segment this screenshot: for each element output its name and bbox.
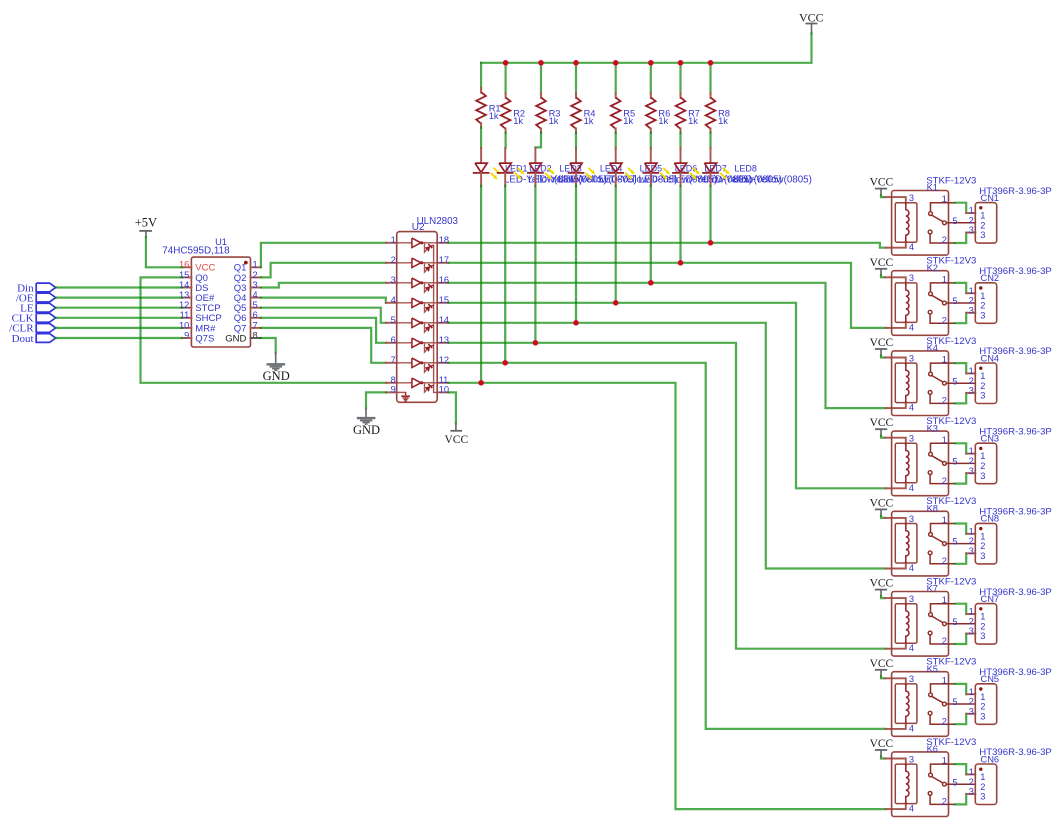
svg-text:2: 2 — [969, 376, 974, 386]
svg-text:7: 7 — [391, 355, 396, 365]
svg-text:LED8: LED8 — [734, 163, 757, 173]
svg-text:4: 4 — [909, 643, 914, 653]
svg-text:VCC: VCC — [870, 337, 894, 349]
svg-text:4: 4 — [909, 242, 914, 252]
svg-text:2: 2 — [969, 456, 974, 466]
svg-text:1: 1 — [942, 756, 947, 766]
svg-text:5: 5 — [952, 617, 957, 627]
svg-text:3: 3 — [909, 674, 914, 684]
svg-text:1: 1 — [969, 446, 974, 456]
svg-text:VCC: VCC — [870, 578, 894, 590]
svg-text:3: 3 — [909, 514, 914, 524]
svg-text:2: 2 — [942, 636, 947, 646]
svg-text:VCC: VCC — [870, 257, 894, 269]
svg-text:CN6: CN6 — [981, 754, 1000, 764]
svg-text:5: 5 — [952, 376, 957, 386]
svg-text:5: 5 — [952, 296, 957, 306]
svg-text:2: 2 — [969, 296, 974, 306]
svg-text:3: 3 — [969, 225, 974, 235]
svg-text:3: 3 — [909, 353, 914, 363]
svg-text:VCC: VCC — [870, 417, 894, 429]
svg-text:K1: K1 — [927, 183, 938, 193]
svg-text:VCC: VCC — [870, 177, 894, 189]
svg-text:3: 3 — [969, 386, 974, 396]
svg-text:9: 9 — [184, 330, 189, 340]
svg-text:K5: K5 — [927, 664, 938, 674]
svg-text:VCC: VCC — [799, 10, 824, 24]
svg-text:2: 2 — [942, 396, 947, 406]
svg-text:3: 3 — [909, 193, 914, 203]
svg-text:74HC595D,118: 74HC595D,118 — [162, 246, 230, 257]
svg-text:1: 1 — [942, 435, 947, 445]
svg-text:3: 3 — [909, 434, 914, 444]
svg-text:2: 2 — [969, 777, 974, 787]
svg-text:1: 1 — [980, 371, 985, 381]
svg-text:3: 3 — [980, 711, 985, 721]
svg-text:6: 6 — [391, 335, 396, 345]
svg-text:1: 1 — [942, 595, 947, 605]
svg-text:VCC: VCC — [870, 738, 894, 750]
svg-text:1: 1 — [969, 526, 974, 536]
svg-text:9: 9 — [391, 385, 396, 395]
svg-text:1k: 1k — [688, 116, 698, 126]
svg-text:2: 2 — [391, 255, 396, 265]
svg-text:CN7: CN7 — [981, 594, 1000, 604]
svg-text:2: 2 — [980, 541, 985, 551]
svg-text:1: 1 — [980, 531, 985, 541]
svg-text:CN1: CN1 — [981, 193, 1000, 203]
svg-text:1: 1 — [942, 355, 947, 365]
svg-text:1: 1 — [980, 612, 985, 622]
svg-text:K6: K6 — [927, 744, 938, 754]
svg-text:6: 6 — [253, 310, 258, 320]
svg-text:2: 2 — [980, 621, 985, 631]
svg-text:2: 2 — [253, 270, 258, 280]
svg-text:VCC: VCC — [444, 434, 468, 446]
svg-text:U2: U2 — [412, 222, 425, 233]
svg-text:K7: K7 — [927, 584, 938, 594]
svg-text:8: 8 — [391, 375, 396, 385]
svg-text:4: 4 — [253, 290, 258, 300]
svg-text:2: 2 — [969, 215, 974, 225]
svg-text:1k: 1k — [584, 116, 594, 126]
svg-text:3: 3 — [969, 546, 974, 556]
svg-text:2: 2 — [969, 697, 974, 707]
svg-text:CN2: CN2 — [981, 273, 1000, 283]
svg-text:2: 2 — [942, 716, 947, 726]
svg-text:2: 2 — [980, 381, 985, 391]
svg-text:11: 11 — [439, 375, 449, 385]
svg-text:1: 1 — [942, 675, 947, 685]
svg-text:1: 1 — [942, 194, 947, 204]
svg-text:4: 4 — [909, 483, 914, 493]
svg-text:CN4: CN4 — [981, 353, 1000, 363]
svg-text:K3: K3 — [927, 423, 938, 433]
svg-text:2: 2 — [942, 556, 947, 566]
svg-text:5: 5 — [952, 537, 957, 547]
svg-text:1k: 1k — [718, 116, 728, 126]
svg-text:3: 3 — [969, 466, 974, 476]
svg-text:5: 5 — [952, 216, 957, 226]
svg-text:2: 2 — [980, 702, 985, 712]
svg-text:1: 1 — [969, 366, 974, 376]
svg-text:1k: 1k — [489, 111, 499, 121]
svg-text:CN8: CN8 — [981, 514, 1000, 524]
svg-text:3: 3 — [969, 626, 974, 636]
svg-text:4: 4 — [391, 295, 396, 305]
svg-text:1k: 1k — [549, 116, 559, 126]
svg-text:1: 1 — [969, 767, 974, 777]
svg-text:1k: 1k — [623, 116, 633, 126]
svg-text:2: 2 — [980, 782, 985, 792]
svg-text:5: 5 — [952, 777, 957, 787]
svg-text:1: 1 — [969, 286, 974, 296]
svg-text:1: 1 — [980, 451, 985, 461]
svg-text:3: 3 — [909, 754, 914, 764]
svg-text:LED-Yellow(0805): LED-Yellow(0805) — [733, 175, 812, 186]
svg-text:1k: 1k — [658, 116, 668, 126]
svg-text:3: 3 — [969, 706, 974, 716]
svg-text:GND: GND — [225, 333, 246, 344]
svg-text:VCC: VCC — [870, 658, 894, 670]
svg-text:1: 1 — [969, 206, 974, 216]
svg-text:1: 1 — [942, 274, 947, 284]
svg-text:1: 1 — [969, 687, 974, 697]
svg-text:4: 4 — [909, 403, 914, 413]
svg-text:+5V: +5V — [135, 215, 157, 229]
svg-text:3: 3 — [253, 280, 258, 290]
svg-text:1: 1 — [980, 772, 985, 782]
svg-text:CN3: CN3 — [981, 434, 1000, 444]
svg-text:GND: GND — [263, 369, 290, 383]
svg-text:3: 3 — [980, 792, 985, 802]
svg-text:3: 3 — [980, 471, 985, 481]
svg-text:2: 2 — [980, 461, 985, 471]
svg-text:2: 2 — [942, 235, 947, 245]
svg-text:1: 1 — [391, 235, 396, 245]
svg-text:1: 1 — [980, 291, 985, 301]
svg-text:2: 2 — [942, 797, 947, 807]
svg-text:2: 2 — [980, 301, 985, 311]
svg-text:7: 7 — [253, 320, 258, 330]
svg-text:3: 3 — [391, 275, 396, 285]
svg-text:2: 2 — [942, 476, 947, 486]
svg-text:5: 5 — [253, 300, 258, 310]
svg-text:K8: K8 — [927, 504, 938, 514]
svg-text:3: 3 — [909, 273, 914, 283]
svg-text:CN5: CN5 — [981, 674, 1000, 684]
svg-text:K4: K4 — [927, 343, 938, 353]
svg-text:1: 1 — [969, 607, 974, 617]
svg-text:3: 3 — [980, 551, 985, 561]
svg-text:4: 4 — [909, 804, 914, 814]
svg-text:1: 1 — [942, 515, 947, 525]
svg-text:3: 3 — [909, 594, 914, 604]
svg-text:1k: 1k — [513, 116, 523, 126]
svg-text:3: 3 — [969, 787, 974, 797]
svg-text:3: 3 — [980, 230, 985, 240]
svg-text:VCC: VCC — [870, 497, 894, 509]
svg-text:GND: GND — [353, 423, 380, 437]
svg-text:5: 5 — [952, 457, 957, 467]
svg-text:4: 4 — [909, 322, 914, 332]
svg-text:1: 1 — [980, 692, 985, 702]
svg-text:2: 2 — [942, 315, 947, 325]
svg-text:Q7S: Q7S — [195, 333, 214, 344]
svg-text:5: 5 — [391, 315, 396, 325]
svg-text:1: 1 — [980, 211, 985, 221]
svg-text:5: 5 — [952, 697, 957, 707]
svg-text:K2: K2 — [927, 263, 938, 273]
svg-text:Dout: Dout — [12, 333, 34, 345]
svg-text:3: 3 — [969, 305, 974, 315]
svg-text:1: 1 — [253, 260, 258, 270]
svg-text:3: 3 — [980, 310, 985, 320]
svg-text:2: 2 — [980, 220, 985, 230]
svg-text:4: 4 — [909, 563, 914, 573]
svg-text:4: 4 — [909, 723, 914, 733]
svg-text:2: 2 — [969, 536, 974, 546]
svg-text:2: 2 — [969, 616, 974, 626]
svg-text:3: 3 — [980, 631, 985, 641]
svg-text:3: 3 — [980, 391, 985, 401]
